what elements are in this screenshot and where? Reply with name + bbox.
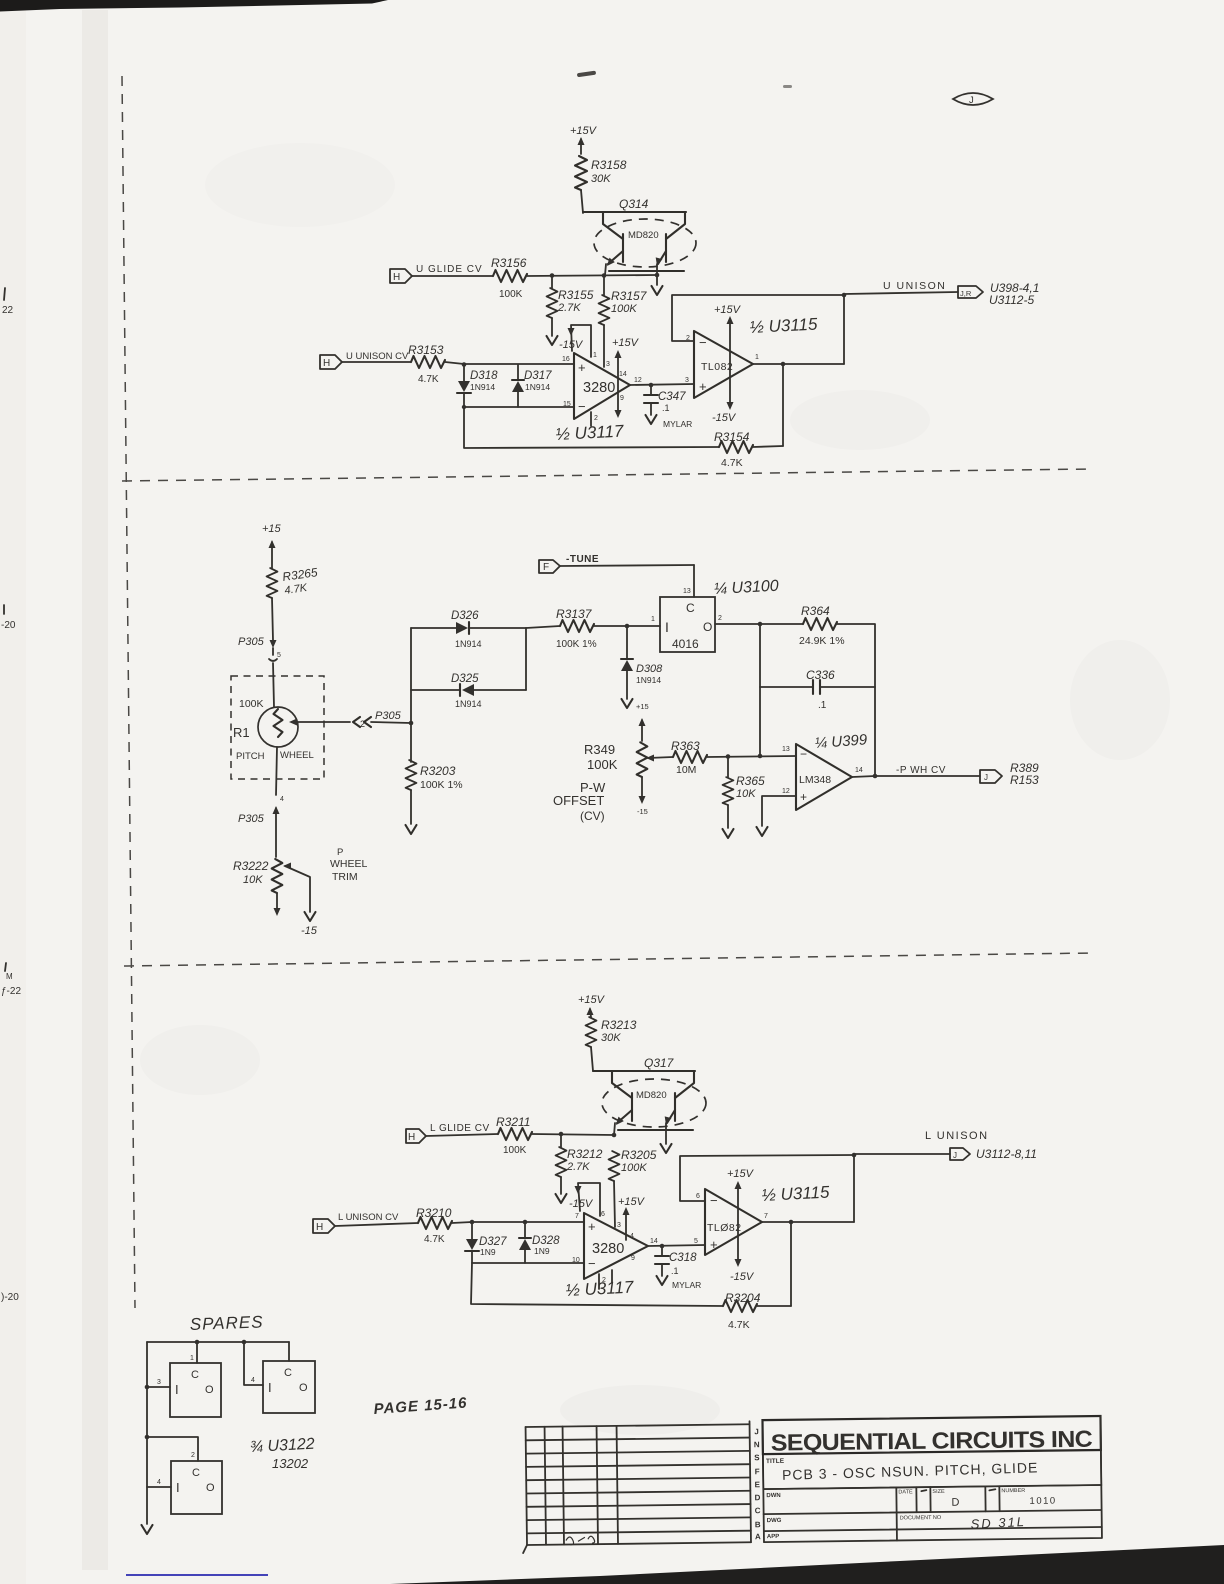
- connector F (-TUNE): [539, 554, 694, 573]
- svg-text:LM348: LM348: [799, 774, 831, 786]
- connector H (U UNISON CV): [320, 351, 409, 369]
- svg-text:F: F: [755, 1467, 760, 1476]
- wire L GLIDE CV rail: [426, 1134, 614, 1136]
- trimmer R3222 10K: [233, 859, 316, 921]
- svg-text:(CV): (CV): [580, 809, 605, 823]
- svg-text:J: J: [754, 1427, 759, 1436]
- svg-text:DOCUMENT NO: DOCUMENT NO: [900, 1515, 942, 1522]
- wiper wire with arrow: [289, 719, 350, 726]
- svg-text:+15: +15: [636, 702, 649, 711]
- svg-text:D318: D318: [470, 370, 498, 382]
- svg-text:5: 5: [277, 652, 281, 659]
- svg-text:R3204: R3204: [725, 1291, 761, 1305]
- svg-text:9: 9: [620, 395, 624, 402]
- svg-text:10: 10: [572, 1257, 580, 1264]
- svg-text:WHEEL: WHEEL: [280, 750, 314, 761]
- diode D325 1N914: [411, 673, 526, 709]
- company logo box: SEQUENTIAL CIRCUITS INC: [762, 1416, 1100, 1456]
- svg-text:TRIM: TRIM: [332, 871, 358, 883]
- svg-text:7: 7: [575, 1213, 579, 1220]
- svg-text:.1: .1: [662, 403, 670, 413]
- svg-text:100K: 100K: [587, 757, 618, 772]
- -15V arrow below R3155: [547, 318, 584, 351]
- svg-text:H: H: [323, 358, 330, 369]
- svg-text:H: H: [408, 1132, 415, 1143]
- svg-text:U UNISON CV: U UNISON CV: [346, 351, 409, 362]
- svg-text:2.7K: 2.7K: [557, 302, 581, 314]
- svg-text:2: 2: [191, 1452, 195, 1459]
- svg-text:R3213: R3213: [601, 1018, 637, 1032]
- svg-text:I: I: [268, 1380, 272, 1395]
- wire R3265 to P305 pin 5: [272, 598, 273, 640]
- svg-text:R3158: R3158: [591, 158, 627, 172]
- svg-text:R3155: R3155: [558, 288, 594, 302]
- ground arrow below C347: [646, 415, 657, 424]
- svg-text:13: 13: [683, 588, 691, 595]
- svg-text:2: 2: [360, 719, 365, 729]
- capacitor C347 .1 MYLAR: [644, 385, 692, 429]
- svg-text:I: I: [176, 1480, 180, 1495]
- svg-text:R3222: R3222: [233, 859, 269, 873]
- resistor R3204 4.7K: [723, 1291, 761, 1331]
- svg-text:−: −: [588, 1256, 596, 1271]
- resistor R3137 100K 1%: [556, 607, 597, 650]
- svg-text:O: O: [299, 1382, 308, 1394]
- wire diode bottom rail to op-amp pin 10: [472, 1262, 584, 1264]
- svg-text:1N914: 1N914: [470, 382, 495, 392]
- svg-text:P305: P305: [375, 710, 402, 722]
- op-amp U3115 second half (TL082): [694, 1189, 768, 1255]
- spare switch U3122a: [147, 1342, 221, 1417]
- svg-text:U3112-8,11: U3112-8,11: [976, 1147, 1037, 1161]
- stray pencil dash top center: [577, 71, 596, 78]
- connector J output: [950, 1147, 1037, 1161]
- svg-text:U UNISON: U UNISON: [883, 280, 946, 292]
- svg-text:½ U3115: ½ U3115: [761, 1182, 830, 1205]
- wire 3280 output to TL082 +input: [630, 384, 694, 385]
- P WHEEL TRIM label: [330, 847, 368, 883]
- svg-text:R365: R365: [736, 774, 765, 788]
- op-amp U3117 (3280): [562, 352, 642, 426]
- svg-text:4.7K: 4.7K: [721, 457, 743, 469]
- diode D328 1N914: [519, 1222, 560, 1263]
- svg-text:.1: .1: [671, 1266, 679, 1276]
- wire diode rail down to feedback rail: [464, 407, 719, 448]
- resistor R3205 100K: [609, 1148, 657, 1181]
- svg-text:1: 1: [755, 354, 759, 361]
- resistor R364 24.9K 1%: [799, 604, 845, 647]
- svg-text:O: O: [703, 620, 712, 634]
- svg-text:10M: 10M: [676, 764, 696, 776]
- svg-text:I: I: [175, 1382, 179, 1397]
- power +15V at 3280: [618, 1196, 646, 1240]
- power +15V at 3280: [612, 337, 640, 418]
- svg-text:¼ U3100: ¼ U3100: [713, 578, 779, 598]
- svg-text:C: C: [192, 1467, 200, 1479]
- resistor R365 10K: [723, 757, 765, 805]
- svg-text:2: 2: [718, 615, 722, 622]
- svg-text:Q314: Q314: [619, 197, 649, 211]
- svg-text:24.9K 1%: 24.9K 1%: [799, 635, 845, 647]
- svg-text:SPARES: SPARES: [189, 1312, 263, 1334]
- svg-text:+15V: +15V: [618, 1196, 646, 1208]
- L UNISON output wire: [854, 1130, 989, 1154]
- svg-text:L UNISON: L UNISON: [925, 1130, 989, 1142]
- svg-text:NUMBER: NUMBER: [1001, 1488, 1025, 1494]
- resistor R3154 4.7K: [714, 430, 753, 469]
- svg-text:4016: 4016: [672, 637, 699, 651]
- wire R3157 to op-amp pin 3: [603, 325, 605, 367]
- svg-text:-15V: -15V: [712, 412, 737, 424]
- svg-text:SIZE: SIZE: [932, 1489, 945, 1495]
- ground arrow at Q314 right emitter: [652, 286, 663, 295]
- power +15V / -15V at TL082: [727, 1168, 755, 1283]
- scan artifact: top black wedge: [0, 0, 388, 12]
- svg-text:R3203: R3203: [420, 764, 456, 778]
- svg-text:−: −: [710, 1193, 718, 1208]
- feedback drop to R3204: [790, 1222, 792, 1306]
- pitch wheel dashed enclosure: [231, 676, 324, 779]
- connector J,R output: [958, 281, 1039, 307]
- svg-text:+15V: +15V: [727, 1168, 755, 1180]
- svg-text:L GLIDE CV: L GLIDE CV: [430, 1123, 490, 1134]
- svg-text:H: H: [316, 1222, 323, 1233]
- svg-text:½ U3117: ½ U3117: [555, 421, 624, 444]
- pitch wheel lower leg P305 pin 4: [238, 747, 284, 857]
- wire R3204 to output node: [757, 1305, 791, 1307]
- svg-text:4.7K: 4.7K: [424, 1234, 445, 1245]
- svg-text:3280: 3280: [592, 1241, 624, 1257]
- connector P305 pin 5 (to pitch wheel): [238, 636, 281, 707]
- svg-text:100K 1%: 100K 1%: [556, 639, 597, 650]
- svg-text:D325: D325: [451, 673, 479, 685]
- svg-text:SD 31L: SD 31L: [970, 1514, 1026, 1532]
- ground arrow below R3203: [406, 790, 417, 834]
- svg-text:S: S: [754, 1453, 760, 1462]
- diode D318 1N914: [457, 365, 498, 407]
- svg-text:14: 14: [650, 1238, 658, 1245]
- svg-text:OFFSET: OFFSET: [553, 793, 604, 808]
- svg-text:WHEEL: WHEEL: [330, 858, 368, 870]
- resistor R3153 4.7K: [408, 343, 445, 385]
- capacitor C318 .1 MYLAR: [655, 1246, 701, 1290]
- svg-text:C336: C336: [806, 668, 835, 682]
- svg-text:J: J: [984, 773, 988, 782]
- svg-text:-TUNE: -TUNE: [566, 554, 599, 565]
- svg-text:+: +: [710, 1237, 718, 1252]
- svg-text:1: 1: [651, 616, 655, 623]
- svg-text:1N9: 1N9: [480, 1247, 496, 1257]
- dashed section divider: horizontal 1: [122, 469, 1093, 481]
- diode D326 1N914: [411, 610, 526, 649]
- svg-text:+15V: +15V: [578, 994, 606, 1006]
- svg-text:-15V: -15V: [569, 1198, 594, 1210]
- U UNISON output wire: [844, 280, 958, 294]
- svg-text:2: 2: [594, 415, 598, 422]
- svg-text:F: F: [543, 562, 549, 573]
- svg-text:6: 6: [696, 1193, 700, 1200]
- connector P305 pin 2 (wiper): [353, 710, 411, 729]
- svg-text:13202: 13202: [272, 1456, 309, 1471]
- connector J (-P WH CV): [980, 761, 1039, 787]
- svg-text:DWN: DWN: [766, 1493, 780, 1499]
- svg-text:−: −: [699, 335, 707, 350]
- svg-text:13: 13: [782, 746, 790, 753]
- svg-text:MD820: MD820: [636, 1090, 667, 1101]
- svg-text:¾ U3122: ¾ U3122: [249, 1436, 315, 1456]
- svg-text:R3157: R3157: [611, 289, 648, 303]
- svg-text:+15V: +15V: [570, 125, 598, 137]
- svg-text:100K: 100K: [503, 1145, 527, 1156]
- svg-text:7: 7: [764, 1213, 768, 1220]
- resistor R3212 2.7K: [556, 1134, 603, 1177]
- svg-text:1N914: 1N914: [525, 382, 550, 392]
- ground arrow below C318: [657, 1276, 668, 1285]
- potentiometer R1 100K PITCH WHEEL: [233, 698, 314, 762]
- R3222 bottom to -15: [274, 893, 318, 937]
- svg-text:D317: D317: [524, 370, 552, 382]
- svg-text:4: 4: [251, 1377, 255, 1384]
- svg-text:E: E: [755, 1480, 761, 1489]
- wire R3205 to op-amp: [614, 1181, 615, 1227]
- svg-text:U3112-5: U3112-5: [989, 293, 1034, 307]
- svg-text:-15: -15: [637, 807, 648, 816]
- spare switch U3122b: [244, 1342, 315, 1413]
- diode D317 1N914: [512, 365, 552, 407]
- node junctions on glide rail: [550, 273, 555, 278]
- resistor R3157 100K: [599, 275, 648, 325]
- svg-text:R3153: R3153: [408, 343, 444, 357]
- svg-text:-P WH CV: -P WH CV: [896, 765, 946, 776]
- left margin tick marks: [4, 288, 6, 971]
- spare switch U3122c: [147, 1437, 222, 1514]
- svg-text:N: N: [754, 1440, 760, 1449]
- compensation loop at 3280: [575, 1183, 601, 1216]
- svg-text:R3137: R3137: [556, 607, 593, 621]
- svg-text:1: 1: [190, 1355, 194, 1362]
- wire R364 to right vertical: [837, 624, 875, 776]
- resistor R3158 30K: [575, 156, 627, 190]
- svg-text:4.7K: 4.7K: [728, 1319, 750, 1331]
- resistor R3265 4.7K: [267, 565, 319, 598]
- svg-text:DATE: DATE: [898, 1489, 913, 1495]
- svg-text:100K 1%: 100K 1%: [420, 779, 463, 791]
- resistor R3155 2.7K: [547, 275, 594, 318]
- power +15V / -15V at TL082: [712, 304, 742, 424]
- svg-text:C: C: [191, 1369, 199, 1381]
- resistor R3203 100K 1%: [406, 760, 463, 791]
- resistor R3210 4.7K: [416, 1206, 452, 1245]
- feedback loop wire TL082 pin6: [680, 1155, 854, 1201]
- svg-text:C318: C318: [669, 1252, 697, 1264]
- svg-text:30K: 30K: [601, 1032, 621, 1044]
- svg-text:1010: 1010: [1029, 1496, 1056, 1507]
- resistor R3156 100K: [491, 256, 527, 300]
- svg-text:1N914: 1N914: [636, 675, 661, 685]
- svg-text:12: 12: [782, 788, 790, 795]
- svg-text:+15: +15: [262, 523, 282, 535]
- zone marker oval (J) top right: [953, 93, 993, 106]
- wire diode bottom rail to op-amp pin 15: [464, 406, 574, 408]
- svg-text:1N9: 1N9: [534, 1246, 550, 1256]
- svg-text:4: 4: [630, 1233, 634, 1240]
- connector H (L GLIDE CV): [406, 1123, 490, 1143]
- svg-text:14: 14: [855, 767, 863, 774]
- svg-text:R349: R349: [584, 742, 615, 757]
- left margin page-edge text fragments: [1, 305, 21, 1303]
- svg-text:-15: -15: [301, 925, 318, 937]
- ground arrow at Q317 right emitter: [661, 1144, 672, 1153]
- handwritten note in grid: [566, 1536, 595, 1545]
- wire R3213 to Q317 bar: [591, 1047, 593, 1071]
- power +15V (top of R3213): [578, 994, 606, 1017]
- -15V arrow below R3212: [556, 1177, 594, 1210]
- spares left bus wire: [146, 1342, 148, 1524]
- svg-text:+: +: [800, 790, 807, 804]
- diode D327 1N914: [465, 1222, 507, 1263]
- svg-text:3: 3: [606, 361, 610, 368]
- svg-text:DWG: DWG: [767, 1518, 782, 1524]
- svg-text:R3156: R3156: [491, 256, 527, 270]
- svg-text:-20: -20: [1, 620, 16, 631]
- wire 4016 out to R364: [715, 623, 803, 625]
- wire U GLIDE CV rail: [412, 275, 657, 276]
- title row: PCB 3 - OSC NSUN, PITCH, GLIDE: [763, 1450, 1101, 1489]
- svg-text:R3205: R3205: [621, 1148, 657, 1162]
- svg-text:)-20: )-20: [1, 1292, 19, 1303]
- svg-text:H: H: [393, 272, 400, 283]
- wire R3158 to Q314 bar: [581, 190, 583, 213]
- svg-text:J: J: [953, 1151, 957, 1160]
- svg-text:4: 4: [280, 796, 284, 803]
- wire R3137 to 4016 pin 1: [526, 626, 660, 628]
- svg-text:TL082: TL082: [701, 361, 733, 373]
- svg-text:3: 3: [685, 377, 689, 384]
- svg-text:16: 16: [562, 356, 570, 363]
- svg-text:-15V: -15V: [730, 1271, 755, 1283]
- svg-text:B: B: [755, 1520, 761, 1529]
- svg-text:−: −: [800, 747, 807, 761]
- scan artifact: bottom-right black wedge: [390, 1545, 1224, 1584]
- svg-text:4: 4: [157, 1479, 161, 1486]
- svg-text:R1: R1: [233, 725, 250, 740]
- svg-text:P: P: [337, 847, 343, 858]
- svg-text:PITCH: PITCH: [236, 751, 265, 762]
- svg-text:D: D: [951, 1497, 959, 1509]
- drawing number row: SD 31L: [767, 1514, 1027, 1534]
- capacitor C336 .1: [760, 624, 875, 756]
- left vertical node wire: [410, 628, 412, 762]
- ground at spares bus: [142, 1525, 153, 1534]
- dashed section divider: vertical: [122, 76, 135, 1308]
- svg-text:C: C: [755, 1506, 761, 1515]
- diode D308 1N914: [621, 626, 663, 699]
- svg-text:MYLAR: MYLAR: [663, 419, 692, 429]
- svg-text:R364: R364: [801, 604, 830, 618]
- svg-text:+: +: [699, 379, 707, 394]
- svg-text:APP: APP: [767, 1534, 779, 1540]
- svg-text:+: +: [578, 360, 586, 375]
- svg-text:Q317: Q317: [644, 1056, 675, 1070]
- svg-text:3: 3: [157, 1379, 161, 1386]
- svg-text:L UNISON CV: L UNISON CV: [338, 1212, 399, 1223]
- svg-text:R3211: R3211: [496, 1115, 530, 1129]
- analog switch U3100 (4016): [651, 565, 722, 652]
- svg-text:J,R: J,R: [960, 289, 972, 298]
- resistor R3211 100K: [496, 1115, 532, 1156]
- svg-text:MD820: MD820: [628, 230, 659, 241]
- svg-text:+: +: [588, 1219, 596, 1234]
- wire L UNISON CV rail into op-amp: [335, 1222, 584, 1226]
- -15 arrow below D308: [622, 699, 649, 711]
- svg-text:100K: 100K: [499, 289, 523, 300]
- svg-text:J: J: [969, 95, 974, 106]
- wire loop right side: [525, 628, 527, 690]
- svg-text:12: 12: [634, 377, 642, 384]
- transistor Q317 (MD820 dual): [593, 1056, 706, 1144]
- svg-text:15: 15: [563, 401, 571, 408]
- resistor R363 10M: [671, 739, 707, 776]
- svg-text:−: −: [578, 399, 586, 414]
- svg-text:M: M: [6, 972, 13, 981]
- connector H (U GLIDE CV): [390, 264, 483, 283]
- svg-text:TLØ82: TLØ82: [707, 1222, 742, 1234]
- revision letters column: [749, 1420, 763, 1542]
- connector H (L UNISON CV): [313, 1212, 399, 1233]
- ground arrow below R365: [723, 805, 734, 838]
- svg-text:100K: 100K: [239, 698, 264, 710]
- svg-text:.1: .1: [818, 700, 827, 711]
- feedback loop wire TL082 pin2: [672, 295, 844, 364]
- svg-text:30K: 30K: [591, 173, 611, 185]
- svg-text:½ U3117: ½ U3117: [565, 1277, 634, 1300]
- op-amp U3117 second half (3280): [572, 1211, 658, 1289]
- power +15V (top of R3158): [570, 125, 598, 154]
- svg-text:1N914: 1N914: [455, 699, 482, 709]
- wire U UNISON CV rail into op-amp: [342, 362, 574, 364]
- svg-text:3280: 3280: [583, 380, 615, 396]
- transistor Q314 (MD820 dual): [583, 197, 696, 285]
- trimmer R349 100K P-W OFFSET (CV): [553, 718, 673, 823]
- spares top rail wire: [147, 1341, 289, 1343]
- svg-text:U GLIDE CV: U GLIDE CV: [416, 264, 483, 275]
- svg-text:22: 22: [2, 305, 14, 316]
- svg-text:10K: 10K: [736, 788, 756, 800]
- svg-text:½ U3115: ½ U3115: [749, 314, 818, 337]
- wire TL082 output: [762, 1221, 854, 1223]
- svg-text:100K: 100K: [611, 303, 637, 315]
- wire R3154 to output node: [753, 446, 783, 447]
- svg-text:C: C: [284, 1367, 292, 1379]
- svg-text:C347: C347: [658, 391, 686, 403]
- dashed section divider: horizontal 2: [124, 953, 1093, 966]
- svg-text:C: C: [686, 601, 695, 615]
- svg-text:R3212: R3212: [567, 1147, 603, 1161]
- svg-text:O: O: [205, 1384, 214, 1396]
- svg-text:D308: D308: [636, 663, 663, 675]
- svg-text:D326: D326: [451, 610, 479, 622]
- svg-text:O: O: [206, 1482, 215, 1494]
- wire R363 to LM348 -input: [707, 756, 796, 757]
- svg-text:ƒ-22: ƒ-22: [1, 986, 21, 997]
- svg-text:D: D: [754, 1493, 760, 1502]
- svg-text:+15V: +15V: [612, 337, 640, 349]
- svg-text:I: I: [665, 619, 669, 635]
- revision history grid: [522, 1424, 752, 1553]
- svg-text:4.7K: 4.7K: [418, 374, 439, 385]
- power +15 (pitch wheel chain): [262, 523, 282, 568]
- approval row: [762, 1416, 1101, 1542]
